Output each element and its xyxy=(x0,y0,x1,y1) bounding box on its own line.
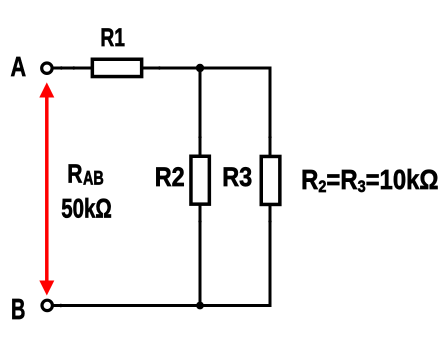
svg-text:AB: AB xyxy=(83,168,104,189)
svg-text:50kΩ: 50kΩ xyxy=(61,194,112,224)
svg-text:R3: R3 xyxy=(222,162,252,192)
svg-text:A: A xyxy=(11,51,27,82)
svg-text:R2: R2 xyxy=(155,162,185,192)
svg-text:R: R xyxy=(67,160,82,188)
svg-text:B: B xyxy=(11,293,25,325)
svg-text:R1: R1 xyxy=(100,24,125,52)
